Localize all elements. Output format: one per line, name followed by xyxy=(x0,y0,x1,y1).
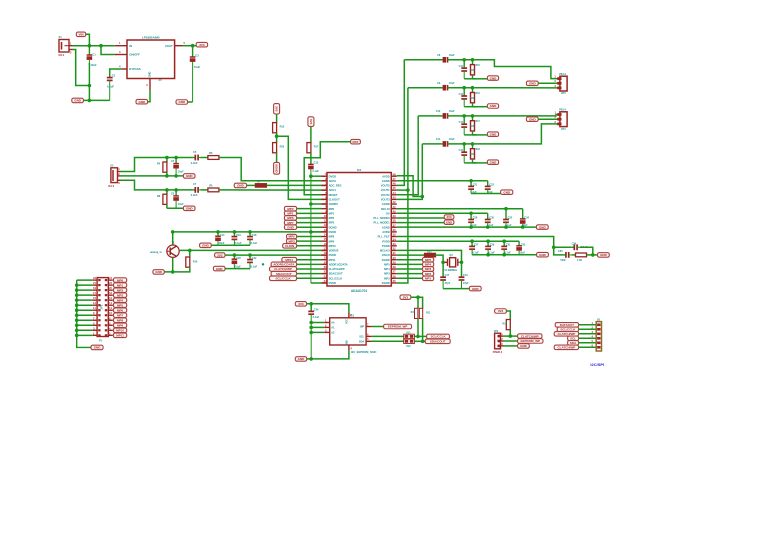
junction ch4 shunt cap xyxy=(462,142,466,146)
svg-text:C36: C36 xyxy=(572,243,577,246)
junction DVDD pin1 xyxy=(309,174,313,178)
resistor R16 xyxy=(186,257,190,267)
pin JP2-3 xyxy=(498,345,501,348)
svg-text:MP0: MP0 xyxy=(329,207,335,211)
pin IC2 (7) xyxy=(322,203,328,205)
net flag MP4 header xyxy=(114,298,127,303)
pin IC2 ADC1 (4) xyxy=(322,189,328,191)
wire MP0 to pin8 xyxy=(297,208,322,210)
pin IC2-3 stub xyxy=(322,184,328,186)
net flag SCL/CCLK xyxy=(427,334,450,339)
resistor R20 xyxy=(273,143,277,153)
wire JP2 row2 xyxy=(504,340,518,342)
resistor R12 xyxy=(425,253,436,256)
svg-text:C11: C11 xyxy=(436,138,441,141)
svg-text:GND: GND xyxy=(503,190,511,194)
pin IC2-46 stub xyxy=(391,184,397,186)
junction JP1 bus row5 xyxy=(75,298,79,302)
svg-text:1.5K: 1.5K xyxy=(577,259,582,262)
wire ON/OFF tie xyxy=(101,46,115,55)
svg-text:ADC1: ADC1 xyxy=(329,188,337,192)
svg-text:SCL: SCL xyxy=(359,336,364,339)
junction ch2 shunt cap xyxy=(462,86,466,90)
svg-text:40: 40 xyxy=(393,209,396,213)
crystal Q1 12.288MHz xyxy=(443,258,461,267)
wire CLKIN to pin16 xyxy=(297,245,322,247)
wire row12 GND rail xyxy=(397,226,537,228)
pin IC2-19 stub xyxy=(322,259,328,261)
capacitor C33 10uF xyxy=(516,241,522,255)
wire JP2 row3 xyxy=(504,345,518,347)
wire ch4 gnd rail xyxy=(464,162,476,164)
svg-text:22: 22 xyxy=(324,270,327,274)
svg-text:AGND: AGND xyxy=(382,225,390,229)
svg-text:SDA/COUT: SDA/COUT xyxy=(430,339,446,343)
resistor shunt ch3 xyxy=(472,116,474,121)
junction mic rail xyxy=(171,230,175,234)
pin IC2-20 stub xyxy=(322,263,328,265)
wire R16 bottom xyxy=(173,267,190,272)
net flag X5 SDA xyxy=(568,341,579,346)
svg-text:44: 44 xyxy=(393,191,396,195)
net flag MP3 header xyxy=(114,293,127,298)
svg-text:41: 41 xyxy=(393,205,396,209)
svg-text:SCL/CCLK: SCL/CCLK xyxy=(560,327,576,331)
wire ch1 after cap xyxy=(448,59,475,61)
svg-text:16K: 16K xyxy=(470,126,475,128)
wire JP2 row1 xyxy=(504,335,518,337)
svg-text:MP5: MP5 xyxy=(384,262,390,266)
svg-text:MP2: MP2 xyxy=(329,216,335,220)
pin IC2-2 stub xyxy=(322,180,328,182)
net flag MP11 left group3 xyxy=(282,257,297,262)
junction PLL branch xyxy=(552,246,556,250)
net flag X5 CLATCH/WP xyxy=(554,332,578,337)
wire pin30 to label xyxy=(397,259,423,261)
svg-text:5: 5 xyxy=(184,41,186,45)
svg-text:BYPASS: BYPASS xyxy=(129,67,140,71)
svg-text:P1: P1 xyxy=(99,340,103,343)
junction JP1 bus row8 xyxy=(75,313,79,317)
pin IC2-39 stub xyxy=(391,217,397,219)
pin JP1-17 xyxy=(98,319,100,321)
svg-text:24: 24 xyxy=(109,276,112,280)
svg-text:C16: C16 xyxy=(236,234,241,237)
svg-text:R11: R11 xyxy=(426,312,431,315)
junction eeprom GND bus xyxy=(309,357,313,361)
svg-text:MP9: MP9 xyxy=(117,323,124,327)
wire mic top to rail xyxy=(172,232,174,245)
svg-text:14: 14 xyxy=(109,301,112,305)
pin IC2-1 stub xyxy=(322,175,328,177)
pin IC2 RESET (5) xyxy=(322,194,328,196)
svg-text:30: 30 xyxy=(393,256,396,260)
svg-text:GND: GND xyxy=(287,225,295,229)
svg-text:C34: C34 xyxy=(524,216,529,219)
svg-text:C17: C17 xyxy=(445,274,450,277)
ground GND input L xyxy=(183,174,195,179)
junction row4 riser xyxy=(406,188,410,192)
ground GND crystal xyxy=(469,286,481,291)
op-amp IC3 EEPROM body xyxy=(330,318,366,345)
pin IC2-5 stub xyxy=(322,194,328,196)
pin IC2 VDRIVE (17) xyxy=(322,249,328,251)
wire R20 down xyxy=(276,153,278,163)
junction shunt R8 top xyxy=(165,188,169,192)
pin JP1-5 xyxy=(98,289,100,291)
svg-text:XP4: XP4 xyxy=(561,128,566,131)
svg-text:GND: GND xyxy=(446,220,452,224)
net flag MP11 header xyxy=(114,333,127,338)
ground GND row18 caps xyxy=(213,266,225,271)
ground GND PLL_MODE1 xyxy=(444,220,454,224)
connector X2 audio input jack xyxy=(111,168,118,183)
junction eeprom A2 xyxy=(309,331,313,335)
junction C18 top xyxy=(248,230,252,234)
capacitor C32 0.1uF xyxy=(503,209,509,227)
pin IC2-11 stub xyxy=(322,222,328,224)
svg-text:C28: C28 xyxy=(473,216,478,219)
svg-text:R16: R16 xyxy=(193,260,198,263)
svg-text:R17: R17 xyxy=(314,145,319,148)
svg-text:A0: A0 xyxy=(331,322,335,325)
svg-text:RESET: RESET xyxy=(329,193,338,197)
capacitor C9 10uF output ch2 xyxy=(443,85,448,91)
wire 3V3 to R10 xyxy=(276,114,278,123)
capacitor C23 10nF xyxy=(485,181,491,194)
pin X2-3 xyxy=(118,179,121,181)
svg-text:13: 13 xyxy=(93,301,96,305)
wire X5 row2 xyxy=(579,328,597,330)
pin IC1 BYPASS (4) xyxy=(122,68,127,70)
svg-text:GND: GND xyxy=(529,117,537,121)
svg-text:C2: C2 xyxy=(112,74,116,78)
svg-text:21: 21 xyxy=(93,281,96,285)
svg-text:19: 19 xyxy=(93,286,96,290)
svg-text:12.288MHz: 12.288MHz xyxy=(444,269,458,272)
junction sleeve/GND xyxy=(88,84,92,88)
wire R10p to SCL xyxy=(417,319,419,337)
svg-text:C21: C21 xyxy=(473,183,478,186)
junction C29 bottom xyxy=(486,253,490,257)
junction crystal left xyxy=(441,261,445,265)
net flag X5 DATAOUT xyxy=(555,323,578,328)
junction JP1 bus row7 xyxy=(75,308,79,312)
jumper SJ1 xyxy=(404,334,415,338)
wire GND to pin12 xyxy=(297,226,322,228)
svg-text:4: 4 xyxy=(119,65,121,69)
svg-text:0.1uF: 0.1uF xyxy=(251,265,258,268)
svg-text:MP1: MP1 xyxy=(329,211,335,215)
svg-text:3V3: 3V3 xyxy=(309,119,313,125)
net flag MP10 header xyxy=(114,328,127,333)
wire RST to RESET pin xyxy=(304,142,350,195)
svg-text:MP11: MP11 xyxy=(116,333,124,337)
pin IC3 A1 (2) xyxy=(324,326,330,328)
wire ch4 after cap xyxy=(448,143,475,145)
svg-text:SJ2: SJ2 xyxy=(406,345,411,348)
svg-text:48: 48 xyxy=(393,172,396,176)
capacitor shunt ch1 xyxy=(461,60,467,79)
wire X5 row4 xyxy=(579,337,597,339)
resistor shunt ch1 xyxy=(472,60,474,65)
wire reg GND down xyxy=(147,90,150,101)
junction SCL pullup xyxy=(416,335,420,339)
capacitor shunt ch2 xyxy=(461,88,467,107)
net flag MP0 header xyxy=(114,278,127,283)
pin JP1-3 xyxy=(98,284,100,286)
wire bias GND rail R xyxy=(167,207,184,209)
resistor R10 xyxy=(273,123,277,133)
junction ch3 shunt res xyxy=(471,114,475,118)
svg-text:2: 2 xyxy=(146,83,148,87)
svg-text:2.2uF: 2.2uF xyxy=(191,193,198,197)
pin IC2-13 stub xyxy=(322,231,328,233)
power flag 3V3 eeprom xyxy=(295,302,306,307)
junction VOUT/C3 xyxy=(191,44,195,48)
ground GND PLL xyxy=(598,253,610,258)
wire 3V3 to R14 xyxy=(506,311,510,320)
svg-text:3V3: 3V3 xyxy=(275,106,279,112)
pin IC2-8 stub xyxy=(322,208,328,210)
ground GND X4 xyxy=(526,117,538,122)
net flag MP1 right xyxy=(423,276,434,281)
capacitor C21 0.1uF xyxy=(468,181,474,194)
wire VOUT to 3V3 xyxy=(183,45,197,47)
wire row2 to caps xyxy=(397,180,488,182)
wire ch3 from riser xyxy=(418,115,442,117)
wire C7 to R5 xyxy=(201,189,208,191)
net flag SDA/COUT left group3 xyxy=(271,271,297,276)
capacitor C34 10uF xyxy=(520,209,526,227)
wire JP1 row12 to bus xyxy=(77,334,93,336)
junction R4 bottom xyxy=(165,174,169,178)
svg-text:analog_in: analog_in xyxy=(150,251,162,254)
net flag MP9 header xyxy=(114,323,127,328)
wire ch4 gnd rail2 xyxy=(473,162,488,164)
wire pin26 to label xyxy=(397,277,423,279)
svg-text:VOUT3: VOUT3 xyxy=(381,198,390,202)
pin IC2-40 stub xyxy=(391,212,397,214)
pin JP1-23 xyxy=(98,334,100,336)
svg-text:0.1uF: 0.1uF xyxy=(107,85,114,89)
capacitor C18 0.1uF xyxy=(247,232,253,245)
wire VIN label drop xyxy=(86,34,90,45)
capacitor C29 0.1uF xyxy=(485,241,491,255)
junction IN/ONOFF tie xyxy=(99,44,103,48)
svg-text:0.1uF: 0.1uF xyxy=(312,170,319,173)
net flag MP4 right xyxy=(423,262,434,267)
wire X5 row1 xyxy=(579,324,597,326)
svg-text:C13: C13 xyxy=(459,93,464,96)
wire ch2 after cap xyxy=(448,87,475,89)
net flag X5 SCL/CCLK xyxy=(557,327,578,332)
junction C16 top xyxy=(233,230,237,234)
svg-text:SCL/CCLK: SCL/CCLK xyxy=(275,276,291,280)
svg-text:10: 10 xyxy=(109,311,112,315)
svg-text:R12: R12 xyxy=(427,250,432,253)
ground GND group2 xyxy=(536,225,548,230)
svg-text:MP0: MP0 xyxy=(287,207,294,211)
junction C28 top xyxy=(469,212,473,216)
svg-text:R6: R6 xyxy=(209,151,213,155)
junction DVDD pin13 xyxy=(309,230,313,234)
net flag JP2 EEPROM_WP xyxy=(518,339,543,344)
svg-text:VOUT: VOUT xyxy=(165,44,173,48)
svg-text:GND: GND xyxy=(346,340,349,346)
ground GND X3 xyxy=(526,81,538,86)
svg-text:GND: GND xyxy=(138,100,146,104)
wire PLL_FILT xyxy=(397,237,564,255)
power flag 3V3 spi xyxy=(495,309,507,314)
wire ch2 gnd rail xyxy=(464,106,476,108)
ground GND mic caps xyxy=(200,243,212,248)
svg-text:43: 43 xyxy=(393,196,396,200)
wire JP1 row5 to bus xyxy=(77,299,93,301)
wire divider tap to pin6 xyxy=(277,136,322,199)
resistor R14 xyxy=(506,320,510,330)
junction row1 to ch4 net xyxy=(421,195,425,199)
svg-text:GND: GND xyxy=(600,253,608,257)
svg-text:MP1: MP1 xyxy=(425,276,432,280)
wire OSCO to R12 xyxy=(397,254,425,256)
svg-text:10uF: 10uF xyxy=(194,65,201,69)
svg-text:16K: 16K xyxy=(470,98,475,100)
pin IC2 DVDD (1) xyxy=(322,175,328,177)
wire SCL/CCLK to pin23 xyxy=(297,277,322,279)
svg-text:18: 18 xyxy=(109,291,112,295)
wire ch3 gnd rail xyxy=(464,134,476,136)
svg-text:C32: C32 xyxy=(508,216,513,219)
pin IC3 WP (7) xyxy=(366,326,372,328)
svg-text:19: 19 xyxy=(324,256,327,260)
net flag MP2 right xyxy=(423,271,434,276)
svg-text:27pF: 27pF xyxy=(463,282,469,285)
svg-text:DATAOUT: DATAOUT xyxy=(560,323,574,327)
pin IC2-22 stub xyxy=(322,273,328,275)
svg-text:15: 15 xyxy=(93,296,96,300)
svg-text:GND: GND xyxy=(74,99,82,103)
ground GND eeprom xyxy=(295,357,306,362)
junction C30 bottom xyxy=(486,225,490,229)
wire eeprom GND xyxy=(307,351,349,359)
svg-text:GND: GND xyxy=(202,243,210,247)
wire A0 xyxy=(311,322,324,324)
svg-text:MP4: MP4 xyxy=(425,263,432,267)
ground GND left xyxy=(72,98,84,103)
junction C31 top xyxy=(502,239,506,243)
svg-text:Q2: Q2 xyxy=(449,254,453,257)
svg-text:GND: GND xyxy=(490,132,498,136)
net flag X5 SCL xyxy=(568,336,579,341)
net flag CLKIN left xyxy=(283,244,297,249)
svg-text:DGND: DGND xyxy=(382,281,390,285)
svg-text:MP11: MP11 xyxy=(285,258,293,262)
net flag ADDR1/CDATA left group3 xyxy=(271,262,297,267)
junction C22 top xyxy=(248,253,252,257)
svg-text:SCL: SCL xyxy=(570,336,576,340)
svg-text:AVDD: AVDD xyxy=(382,230,389,234)
wire ch1 from riser xyxy=(404,59,442,61)
svg-text:1: 1 xyxy=(118,167,120,171)
pin IC2-28 stub xyxy=(391,268,397,270)
svg-text:GND: GND xyxy=(237,184,245,188)
junction DVDD pin7 xyxy=(309,202,313,206)
resistor R10 pullup xyxy=(415,308,418,318)
junction C4 bottom xyxy=(174,174,178,178)
wire X5 row3 xyxy=(579,333,597,335)
svg-text:SDA/COUT: SDA/COUT xyxy=(329,272,343,276)
pin IC2-10 stub xyxy=(322,217,328,219)
wire JP1 row11 to bus xyxy=(77,329,93,331)
pin IC2-7 stub xyxy=(322,203,328,205)
wire VOUT0 riser xyxy=(397,60,405,186)
wire ch1 gnd rail2 xyxy=(473,78,488,80)
wire to pin1 xyxy=(311,175,322,177)
svg-text:29: 29 xyxy=(393,260,396,264)
svg-text:MP10: MP10 xyxy=(329,244,337,248)
wire JP1 row2 to bus xyxy=(77,284,93,286)
power flag 3V3 chain A xyxy=(274,104,280,114)
junction C27 top xyxy=(470,239,474,243)
svg-text:MP3: MP3 xyxy=(117,293,124,297)
capacitor C22 0.1uF xyxy=(247,255,253,269)
ground GND group1 xyxy=(501,190,513,195)
svg-text:47: 47 xyxy=(393,177,396,181)
capacitor C10 10uF output ch3 xyxy=(443,113,448,119)
svg-text:C7: C7 xyxy=(193,182,197,186)
svg-text:SJ1: SJ1 xyxy=(406,331,411,334)
wire mic caps GND rail xyxy=(211,244,250,246)
op-amp IC1 LP2985 regulator body xyxy=(127,40,175,79)
capacitor C36 3.3nF xyxy=(572,244,580,250)
junction eeprom A1 xyxy=(309,326,313,330)
wire C3 to GND xyxy=(188,101,193,103)
net flag MP6 header xyxy=(114,308,127,313)
svg-text:EEPROM_WP: EEPROM_WP xyxy=(521,339,541,343)
svg-text:VDRIVE: VDRIVE xyxy=(329,249,339,253)
pin IC2 ADC0 (2) xyxy=(322,180,328,182)
wire JP1 row1 to bus xyxy=(77,279,93,281)
junction R16 top xyxy=(188,249,192,253)
pin IC2-12 stub xyxy=(322,226,328,228)
svg-text:23: 23 xyxy=(324,274,327,278)
wire PLL_MODE0 xyxy=(397,217,444,219)
svg-text:3V3: 3V3 xyxy=(447,215,452,219)
svg-text:MP6: MP6 xyxy=(117,308,124,312)
wire L input to ADC0 xyxy=(219,158,322,181)
junction JP1 bus row11 xyxy=(75,329,79,333)
pin JP1-15 xyxy=(98,314,100,316)
resistor shunt ch4 xyxy=(472,144,474,149)
svg-text:GND: GND xyxy=(186,206,194,210)
svg-text:IN: IN xyxy=(129,44,132,48)
junction ch1 shunt cap xyxy=(462,58,466,62)
svg-text:R17: R17 xyxy=(476,121,481,123)
wire C35 to R13 xyxy=(572,254,576,256)
capacitor C13 0.1uF DVDD xyxy=(308,164,314,283)
svg-text:MP6: MP6 xyxy=(287,216,294,220)
net flag MP3 right xyxy=(423,267,434,272)
wire group1 GND rail xyxy=(471,193,501,195)
svg-text:R4: R4 xyxy=(157,163,161,166)
net flag MP6 left xyxy=(284,216,296,221)
svg-text:10uF: 10uF xyxy=(449,110,455,113)
net flag MP5 header xyxy=(114,303,127,308)
svg-text:CLATCH/WP: CLATCH/WP xyxy=(558,332,576,336)
svg-text:MP3: MP3 xyxy=(384,272,390,276)
junction C32 top xyxy=(504,207,508,211)
